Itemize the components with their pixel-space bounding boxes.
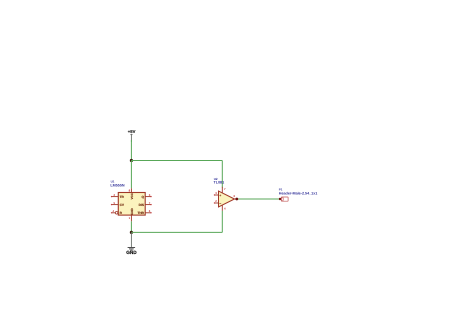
wire +5V junction down to U1 VCC pin bbox=[130, 161, 132, 189]
U2 pin 4 V- bbox=[221, 205, 223, 211]
node junction bottom bbox=[130, 231, 133, 234]
svg-text:+: + bbox=[219, 193, 221, 197]
U1 pin 6 THR bbox=[145, 212, 151, 214]
svg-text:THR: THR bbox=[137, 211, 144, 215]
wire op-amp output to header bbox=[237, 198, 280, 200]
wire U1 GND pin to bottom junction bbox=[130, 221, 132, 232]
U2 pin 7 V+ bbox=[221, 187, 223, 193]
ground bbox=[126, 232, 137, 255]
svg-text:TL081: TL081 bbox=[214, 181, 225, 185]
U2 pin 3 in+ bbox=[215, 194, 219, 196]
node junction top bbox=[130, 159, 133, 162]
wire right vertical lower bbox=[221, 211, 223, 233]
svg-text:LM555N: LM555N bbox=[110, 184, 124, 188]
U1 pin 5 CV bbox=[112, 204, 119, 206]
wire bottom horizontal bbox=[131, 231, 222, 233]
U1 pin 2 TR bbox=[112, 196, 119, 198]
connector P1 Header-Male-2.54_1x1 bbox=[279, 188, 318, 202]
svg-text:GND: GND bbox=[126, 250, 137, 255]
svg-text:DIS: DIS bbox=[139, 203, 144, 207]
power flag +5V bbox=[128, 129, 136, 142]
wire top horizontal bbox=[131, 160, 222, 162]
node op-amp output bbox=[235, 198, 238, 201]
ic U1 LM555N bbox=[110, 180, 151, 222]
svg-text:Header-Male-2.54_1x1: Header-Male-2.54_1x1 bbox=[279, 191, 318, 195]
wire +5V to junction bbox=[130, 140, 132, 161]
U1 pin 4 R (inverted) bbox=[112, 212, 116, 214]
U1 pin 1 GND (bottom) bbox=[130, 215, 132, 221]
wire right vertical upper bbox=[221, 161, 223, 188]
U1 pin 3 Q bbox=[145, 196, 151, 198]
svg-text:VCC: VCC bbox=[130, 192, 134, 199]
svg-text:GND: GND bbox=[130, 207, 134, 215]
svg-text:+5V: +5V bbox=[128, 129, 136, 134]
svg-text:TR: TR bbox=[120, 195, 125, 199]
op-amp U2 TL081 bbox=[214, 177, 239, 211]
U1 body bbox=[118, 193, 145, 216]
U1 pin 8 VCC (top) bbox=[130, 188, 132, 192]
P1 pin 1 bbox=[279, 198, 281, 200]
svg-text:−: − bbox=[219, 201, 221, 205]
U2 body triangle bbox=[219, 191, 235, 207]
U2 pin 2 in- bbox=[215, 202, 219, 204]
U1 pin 7 DIS bbox=[145, 204, 151, 206]
U2 pin 6 out bbox=[235, 198, 238, 200]
